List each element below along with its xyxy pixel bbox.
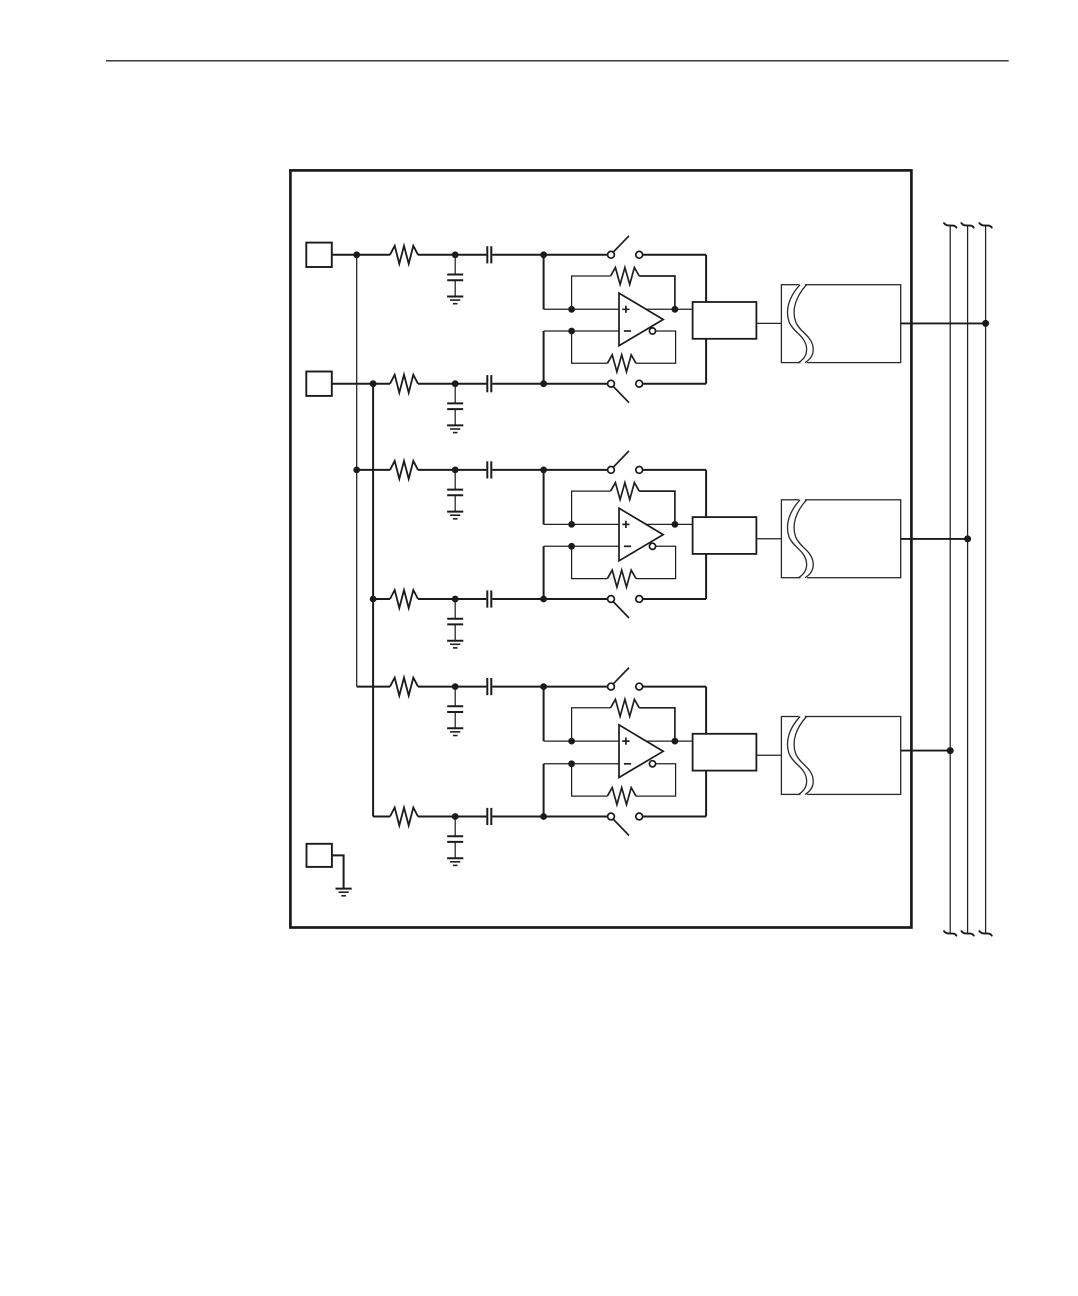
node +input 1 <box>568 306 575 313</box>
wire feedback top left 3 <box>572 708 611 741</box>
wire feedback top left 1 <box>572 276 611 309</box>
cable line 3 top break <box>979 223 991 228</box>
transducer 2 body <box>781 500 900 578</box>
node +input 3 <box>568 738 575 745</box>
wire series cap to node 2B <box>492 598 543 600</box>
wire R2A to C2A <box>418 469 455 471</box>
transducer 1 body <box>781 285 900 363</box>
node -input 2 <box>568 543 575 550</box>
resistor Rf1B <box>607 355 636 372</box>
wire to series cap 2A <box>455 469 486 471</box>
node op-amp output 3 <box>672 738 679 745</box>
resistor R2A <box>390 461 418 479</box>
wire pad A to node <box>332 254 357 256</box>
wire row 3A <box>357 686 390 688</box>
resistor R3B <box>390 808 418 826</box>
wire to series cap 1A <box>455 254 486 256</box>
wire transducer 3 to cable <box>901 750 951 752</box>
op-amp U1 inverting output bubble <box>649 328 655 334</box>
switch S3A lever <box>613 668 629 685</box>
transducer 1 break mask <box>791 283 810 365</box>
capacitor C2A shunt <box>454 470 456 490</box>
capacitor series 2B <box>486 590 488 607</box>
op-amp U2 inverting output bubble <box>649 543 655 549</box>
wire rise 1B to -in <box>543 331 545 384</box>
node row 1B tap <box>370 380 377 387</box>
wire +input rail 1 <box>544 308 619 310</box>
capacitor series 1B <box>486 375 488 392</box>
wire GND pad <box>332 855 344 888</box>
ground symbol GND pad <box>336 888 352 890</box>
pad GND <box>307 844 332 867</box>
wire R1A to C1A <box>418 254 455 256</box>
ground C3A <box>447 727 463 729</box>
wire feedback top right 2 <box>639 491 675 524</box>
capacitor C3A shunt <box>454 687 456 707</box>
wire op-amp output 3 <box>645 740 693 742</box>
node row 2B tap <box>370 596 377 603</box>
op-amp U3 inverting output bubble <box>649 761 655 767</box>
transducer 3 body <box>781 717 900 795</box>
transducer 1 break curve 1 <box>787 285 806 363</box>
node row 1A tap <box>353 251 360 258</box>
switch S2B lever <box>613 601 629 618</box>
switch S2A lever <box>613 451 629 468</box>
ground C2B <box>447 640 463 642</box>
capacitor C1A shunt <box>454 255 456 275</box>
wire node to switch 2A <box>544 469 608 471</box>
wire drop 2A to +in <box>543 470 545 525</box>
resistor Rf2A <box>611 483 640 500</box>
capacitor C3B shunt <box>454 817 456 837</box>
wire series cap to node 1A <box>492 254 543 256</box>
resistor R2B <box>390 590 418 608</box>
cable line 1 top break <box>944 223 956 228</box>
switch S3B contact 2 <box>636 813 643 820</box>
resistor Rf3B <box>607 788 636 805</box>
transducer 3 break curve 2 <box>794 717 813 795</box>
node +input 2 <box>568 521 575 528</box>
node C2A junction <box>452 467 459 474</box>
wire node to switch 3A <box>544 686 608 688</box>
cable line 1 bottom break <box>944 931 956 936</box>
node row 2A tap <box>353 467 360 474</box>
cable line 3 bottom break <box>979 931 991 936</box>
switch S3A contact 2 <box>636 683 643 690</box>
device outline box <box>290 170 911 927</box>
cable line 3 <box>985 226 987 934</box>
cable line 2 top break <box>961 223 973 228</box>
wire to series cap 2B <box>455 598 486 600</box>
capacitor series 1A <box>486 246 488 263</box>
wire row 1B <box>373 383 390 385</box>
wire -input rail 1 <box>544 330 619 332</box>
wire switch tie 3 <box>705 687 707 817</box>
wire pad B to node <box>332 383 373 385</box>
wire block to transducer 3 <box>756 754 781 756</box>
resistor Rf3A <box>611 699 640 716</box>
wire switch 2A to tie <box>643 469 707 471</box>
transducer 2 break mask <box>791 498 810 580</box>
cable line 2 bottom break <box>961 931 973 936</box>
ground C1B <box>447 424 463 426</box>
wire node to switch 3B <box>544 816 608 818</box>
wire series cap to node 3A <box>492 686 543 688</box>
wire row 1A <box>357 254 390 256</box>
wire switch tie 1 <box>705 255 707 384</box>
wire switch 3A to tie <box>643 686 707 688</box>
switch S1B lever <box>613 386 629 403</box>
wire block to transducer 2 <box>756 538 781 540</box>
switch S2A contact 2 <box>636 467 643 474</box>
node C1B junction <box>452 380 459 387</box>
wire switch tie 2 <box>705 470 707 599</box>
op-amp U1 <box>619 293 663 346</box>
capacitor C2B shunt <box>454 599 456 619</box>
wire series cap to node 2A <box>492 469 543 471</box>
op-amp U2 plus sign <box>622 521 629 528</box>
wire R2B to C2B <box>418 598 455 600</box>
switch S2B contact 1 <box>608 596 615 603</box>
wire block to transducer 1 <box>756 322 781 324</box>
wire feedback bottom right 2 <box>636 546 676 578</box>
transducer 2 break curve 2 <box>794 500 813 578</box>
transducer 3 break curve 1 <box>787 717 806 795</box>
cable line 1 <box>949 226 951 934</box>
driver block 3 <box>693 734 757 771</box>
wire to series cap 3A <box>455 686 486 688</box>
capacitor series 3B <box>486 808 488 825</box>
wire input A bus vertical <box>356 255 358 687</box>
cable line 2 <box>967 226 969 934</box>
wire rise 2B to -in <box>543 546 545 599</box>
switch S3B lever <box>613 819 629 836</box>
transducer 3 break mask <box>791 715 810 797</box>
wire row 3B <box>373 816 390 818</box>
resistor R1A <box>390 246 418 264</box>
wire row 2A <box>357 469 390 471</box>
wire node to switch 2B <box>544 598 608 600</box>
node -input 1 <box>568 328 575 335</box>
resistor R3A <box>390 678 418 696</box>
capacitor C1B shunt <box>454 384 456 404</box>
wire rise 3B to -in <box>543 764 545 817</box>
wire to series cap 3B <box>455 816 486 818</box>
wire input B bus vertical <box>372 384 374 817</box>
wire switch 3B to tie <box>643 816 707 818</box>
node cable tap 3 <box>947 747 954 754</box>
wire to series cap 1B <box>455 383 486 385</box>
op-amp U3 plus sign <box>622 738 629 745</box>
transducer 1 break curve 2 <box>794 285 813 363</box>
transducer 2 break curve 1 <box>787 500 806 578</box>
wire series cap to node 1B <box>492 383 543 385</box>
node cable tap 2 <box>964 535 971 542</box>
resistor Rf2B <box>607 570 636 587</box>
switch S1A contact 1 <box>608 251 615 258</box>
wire R3B to C3B <box>418 816 455 818</box>
node switch junction 3B <box>540 813 547 820</box>
switch S3B contact 1 <box>608 813 615 820</box>
node switch junction 1B <box>540 380 547 387</box>
node C3B junction <box>452 813 459 820</box>
wire node to switch 1A <box>544 254 608 256</box>
op-amp U1 minus sign <box>624 330 631 332</box>
wire op-amp output 1 <box>645 308 693 310</box>
pad IN1B <box>306 372 332 396</box>
switch S1B contact 2 <box>636 380 643 387</box>
resistor Rf1A <box>611 268 640 285</box>
wire transducer 1 to cable <box>901 322 986 324</box>
wire op-amp output 2 <box>645 523 693 525</box>
ground C3B <box>447 857 463 859</box>
wire switch 1B to tie <box>643 383 707 385</box>
wire switch 1A to tie <box>643 254 707 256</box>
switch S1A lever <box>613 236 629 253</box>
wire feedback bottom right 1 <box>636 331 676 363</box>
node C3A junction <box>452 683 459 690</box>
capacitor series 2A <box>486 461 488 478</box>
wire node to switch 1B <box>544 383 608 385</box>
node C2B junction <box>452 596 459 603</box>
resistor R1B <box>390 375 418 393</box>
node op-amp output 2 <box>672 521 679 528</box>
op-amp U2 <box>619 508 663 561</box>
driver block 1 <box>693 302 757 339</box>
wire -input rail 2 <box>544 545 619 547</box>
wire series cap to node 3B <box>492 816 543 818</box>
driver block 2 <box>693 517 757 554</box>
wire +input rail 3 <box>544 740 619 742</box>
pad IN1A <box>306 243 332 267</box>
ground C2A <box>447 511 463 513</box>
switch S2B contact 2 <box>636 596 643 603</box>
node switch junction 1A <box>540 251 547 258</box>
ground C1A <box>447 296 463 298</box>
header rule <box>106 60 1009 62</box>
op-amp U1 plus sign <box>622 306 629 313</box>
wire -input rail 3 <box>544 763 619 765</box>
node switch junction 2B <box>540 596 547 603</box>
wire feedback top right 3 <box>639 708 675 741</box>
capacitor series 3A <box>486 678 488 695</box>
op-amp U2 minus sign <box>624 545 631 547</box>
switch S1B contact 1 <box>608 380 615 387</box>
node op-amp output 1 <box>672 306 679 313</box>
wire feedback bottom left 2 <box>572 546 608 578</box>
node switch junction 3A <box>540 683 547 690</box>
wire feedback bottom right 3 <box>636 764 676 796</box>
wire R1B to C1B <box>418 383 455 385</box>
wire feedback bottom left 1 <box>572 331 608 363</box>
wire R3A to C3A <box>418 686 455 688</box>
wire feedback bottom left 3 <box>572 764 608 796</box>
op-amp U3 <box>619 725 663 778</box>
wire drop 1A to +in <box>543 255 545 309</box>
wire row 2B <box>373 598 390 600</box>
node switch junction 2A <box>540 467 547 474</box>
switch S3A contact 1 <box>608 683 615 690</box>
node C1A junction <box>452 251 459 258</box>
node -input 3 <box>568 760 575 767</box>
wire transducer 2 to cable <box>901 538 968 540</box>
wire switch 2B to tie <box>643 598 707 600</box>
wire feedback top left 2 <box>572 491 611 524</box>
wire drop 3A to +in <box>543 687 545 742</box>
wire feedback top right 1 <box>639 276 675 309</box>
switch S2A contact 1 <box>608 467 615 474</box>
wire +input rail 2 <box>544 523 619 525</box>
node cable tap 1 <box>982 320 989 327</box>
op-amp U3 minus sign <box>624 763 631 765</box>
switch S1A contact 2 <box>636 251 643 258</box>
